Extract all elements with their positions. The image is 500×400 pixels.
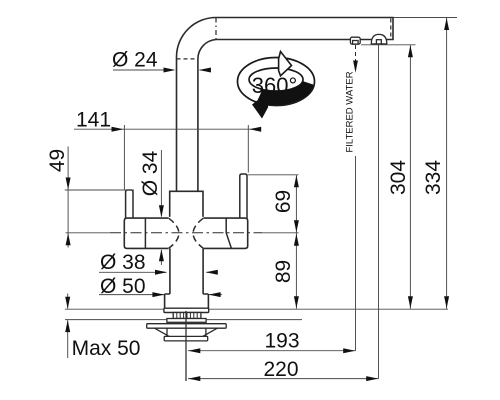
89 arrows [294, 234, 299, 246]
svg-text:89: 89 [272, 260, 295, 283]
svg-text:Ø 24: Ø 24 [112, 49, 158, 72]
360 ring black front band [257, 81, 314, 105]
riser tangent dashed mark at y=58.9 [177, 58, 198, 60]
dim 141 line [74, 128, 261, 130]
svg-text:Ø 38: Ø 38 [100, 251, 146, 274]
dim 69/89 line [295, 175, 297, 309]
filtered water outlet (small) under arm [350, 37, 360, 44]
arrowheads [65, 18, 449, 381]
dim Ø38 line [99, 271, 167, 273]
svg-text:69: 69 [272, 190, 295, 213]
Ø24 arrows [164, 68, 176, 73]
ext 141 left [123, 125, 125, 190]
svg-text:Ø 50: Ø 50 [100, 275, 146, 298]
threaded shank [173, 313, 201, 319]
dim 49 line [67, 147, 69, 248]
ref centerline left [66, 232, 111, 234]
360 black arrowhead bottom left [252, 92, 269, 119]
dim 220 line [188, 378, 379, 380]
main outlet dome under arm end [371, 34, 387, 44]
ref lever-top left [65, 189, 134, 191]
right cylinder cap division + diagonal [226, 218, 231, 248]
left lever [126, 190, 133, 218]
Max50 arrows [65, 297, 70, 309]
ext 141 right [247, 125, 249, 173]
svg-text:304: 304 [387, 160, 410, 195]
svg-text:220: 220 [263, 358, 298, 381]
faucet centerline below base [185, 311, 187, 381]
svg-text:360°: 360° [252, 73, 298, 98]
dim 193 line [188, 350, 356, 352]
193 arrows [188, 348, 200, 353]
dim 304 line [409, 45, 411, 309]
dim 334 line [446, 18, 448, 309]
lower column (Ø38) [170, 248, 203, 294]
Ø38 arrows [155, 270, 167, 275]
Ø34 arrows [159, 205, 164, 217]
thread marks [177, 313, 197, 319]
69 arrows [294, 175, 299, 187]
49 arrows [66, 178, 71, 190]
spout tube: riser + elbow + horizontal arm [177, 18, 394, 192]
svg-text:FILTERED WATER: FILTERED WATER [345, 71, 356, 152]
countertop top line [65, 308, 164, 310]
dim Max50 [67, 294, 69, 309]
ref outlet bottom [361, 44, 416, 46]
filtered water line lower [355, 156, 357, 351]
flare cone [155, 328, 218, 336]
ref centerline right [262, 232, 299, 234]
bottom nut plate [164, 336, 208, 341]
141 arrows [112, 127, 124, 132]
body shoulder block [170, 191, 203, 217]
arm end cap dashed mark [390, 19, 392, 40]
filtered water dashed drop + arrow [355, 45, 357, 62]
360 white block arrowhead pointing right [279, 52, 292, 76]
washer plate [147, 324, 227, 329]
escutcheon plate [164, 308, 209, 312]
svg-text:49: 49 [46, 149, 69, 172]
Ø50 arrows [152, 292, 164, 297]
360 ring outer ellipse [238, 58, 315, 106]
left cylinder cap division [144, 218, 146, 248]
left cylinder inner-end dashed arc [169, 218, 179, 248]
360 ring inner ellipse [249, 68, 303, 91]
countertop bottom line [65, 319, 167, 321]
svg-text:141: 141 [76, 109, 111, 132]
left valve cylinder [124, 218, 168, 248]
ref spout top right [394, 17, 458, 19]
304 arrows [408, 45, 413, 57]
main outlet line [378, 45, 380, 379]
right valve cylinder [203, 218, 247, 248]
svg-text:Max 50: Max 50 [72, 337, 141, 360]
334 arrows [444, 18, 449, 30]
nut plate [167, 319, 206, 323]
cylinders centerline (dash-dot) [110, 232, 262, 234]
elbow tangent mark (vertical dash-dot at x=216) [215, 18, 217, 40]
ref right-lever-top [248, 174, 299, 176]
dim Ø34 line [160, 150, 162, 217]
right cylinder inner-end dashed arc [193, 218, 203, 248]
svg-text:Ø 34: Ø 34 [139, 150, 162, 196]
dim Ø50 line [99, 294, 164, 296]
base column (Ø50) [165, 294, 209, 308]
svg-text:334: 334 [422, 160, 445, 195]
220 arrows [188, 376, 200, 381]
svg-text:193: 193 [264, 330, 299, 353]
right lever [240, 174, 247, 218]
dim Ø24 line [113, 69, 166, 71]
